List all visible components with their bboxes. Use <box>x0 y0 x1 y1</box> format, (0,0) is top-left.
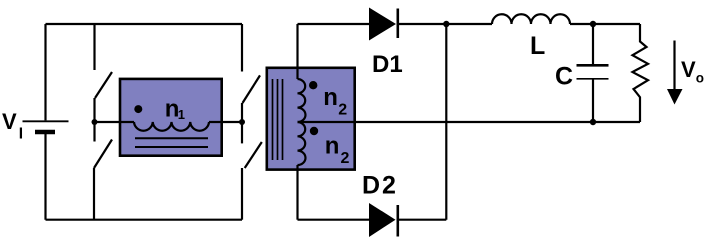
svg-text:2: 2 <box>338 102 347 119</box>
svg-text:Vo: Vo <box>681 57 704 86</box>
svg-text:C: C <box>555 63 573 91</box>
svg-text:L: L <box>530 32 545 60</box>
svg-text:I: I <box>19 126 23 143</box>
svg-text:n: n <box>325 133 340 160</box>
svg-text:n: n <box>323 84 338 111</box>
svg-text:2: 2 <box>341 150 350 167</box>
svg-text:D1: D1 <box>372 51 403 78</box>
svg-text:V: V <box>2 109 17 134</box>
svg-text:1: 1 <box>178 107 185 122</box>
svg-text:D2: D2 <box>362 172 398 200</box>
